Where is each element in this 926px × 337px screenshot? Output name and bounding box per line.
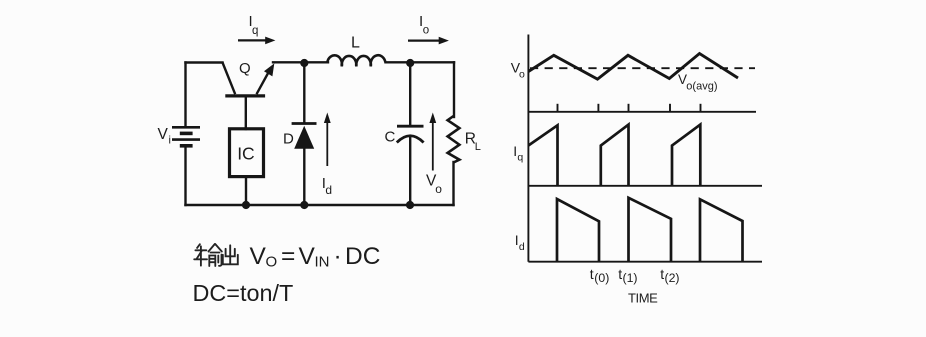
svg-text:(2): (2) xyxy=(665,271,680,285)
wire inductor to right corner xyxy=(386,61,455,63)
axis: Iq baseline xyxy=(528,185,762,187)
wire capacitor branch lower xyxy=(409,136,411,205)
svg-text:DC: DC xyxy=(345,243,380,270)
battery V_i xyxy=(172,127,200,146)
svg-text:V: V xyxy=(250,243,267,270)
formula VO = VIN · DC xyxy=(250,243,381,271)
label Vo (circuit) xyxy=(426,173,442,197)
waveform Iq pulse 3 xyxy=(672,125,700,186)
diode D xyxy=(292,124,317,149)
svg-text:q: q xyxy=(252,25,258,37)
svg-text:L: L xyxy=(351,35,360,52)
node A (collector/diode junction) xyxy=(300,59,308,67)
label Io xyxy=(419,13,429,37)
waveform Id pulse 3 xyxy=(700,199,743,261)
svg-text:V: V xyxy=(158,126,169,143)
svg-text:D: D xyxy=(283,131,294,148)
svg-text:O: O xyxy=(266,254,278,271)
hanzi 出 (drawn strokes) xyxy=(223,245,238,264)
svg-text:·: · xyxy=(334,243,342,270)
capacitor C xyxy=(397,126,424,142)
svg-text:o(avg): o(avg) xyxy=(686,80,717,92)
svg-text:TIME: TIME xyxy=(628,291,658,306)
waveform Iq pulse 2 xyxy=(601,125,629,186)
hanzi 输 (drawn strokes) xyxy=(194,244,222,266)
wire resistor bottom to rail xyxy=(452,162,454,205)
axis: tick timeline between Vo and Iq xyxy=(528,104,756,112)
wire diode branch lower xyxy=(303,149,305,205)
label t(0) xyxy=(590,266,610,285)
svg-text:o: o xyxy=(519,68,525,80)
svg-text:IN: IN xyxy=(315,254,330,271)
svg-text:t: t xyxy=(590,266,594,282)
svg-text:d: d xyxy=(519,241,525,253)
label Vi xyxy=(158,126,171,147)
arrow Iq (top current arrow) xyxy=(238,37,275,45)
label Iq xyxy=(249,13,259,37)
svg-text:i: i xyxy=(169,135,171,147)
inductor L xyxy=(327,55,385,66)
label Id (waveform axis) xyxy=(515,232,525,253)
node B (inductor/cap junction) xyxy=(406,59,414,67)
svg-text:DC=ton/T: DC=ton/T xyxy=(193,280,294,306)
wire IC to rail xyxy=(245,177,247,206)
label t(2) xyxy=(660,266,679,285)
label Vo(avg) xyxy=(678,72,717,92)
svg-text:Q: Q xyxy=(239,60,251,77)
label Iq (waveform axis) xyxy=(513,143,523,164)
svg-text:V: V xyxy=(299,243,316,270)
svg-text:o: o xyxy=(423,25,429,37)
label t(1) xyxy=(618,266,637,285)
wire left vertical lower xyxy=(184,146,186,205)
label Id (circuit) xyxy=(322,175,332,197)
transistor Q1 xyxy=(223,63,275,96)
resistor RL xyxy=(448,116,460,163)
waveform Id pulse 2 xyxy=(629,198,672,262)
wire top-left horizontal xyxy=(186,61,223,63)
node: capacitor ground junction xyxy=(406,201,414,209)
wire left vertical upper xyxy=(184,63,186,128)
wire right corner down to resistor xyxy=(453,62,455,117)
waveform Iq pulse 1 xyxy=(528,125,557,186)
axis: vertical voltage/current axis xyxy=(527,35,529,262)
tick at 700.5 xyxy=(700,104,702,112)
label RL xyxy=(465,130,481,152)
svg-text:IC: IC xyxy=(237,144,255,164)
label Vo (waveform axis) xyxy=(511,60,525,81)
waveform Id pulse 1 xyxy=(557,199,599,262)
svg-text:=: = xyxy=(281,243,295,270)
svg-text:o: o xyxy=(435,182,442,196)
wire bottom rail xyxy=(186,204,454,206)
wire base to IC xyxy=(245,97,247,129)
arrow Vo (output voltage arrow) xyxy=(429,113,436,171)
svg-text:q: q xyxy=(517,152,523,164)
svg-text:d: d xyxy=(325,183,332,197)
tick t at 557.5 xyxy=(557,104,559,112)
svg-text:(1): (1) xyxy=(623,271,638,285)
svg-text:(0): (0) xyxy=(594,271,609,285)
wire diode branch upper xyxy=(303,63,305,123)
dashed line Vo(avg) xyxy=(530,67,755,69)
svg-text:L: L xyxy=(475,141,481,153)
svg-text:C: C xyxy=(385,129,396,146)
tick at 628.5 xyxy=(628,104,630,112)
tick at 670 xyxy=(669,104,671,112)
tick at 598.4 xyxy=(597,104,599,112)
wire capacitor branch upper xyxy=(409,63,411,125)
node: IC ground junction xyxy=(242,201,250,209)
IC block U1 xyxy=(230,129,264,177)
axis: Id baseline (time axis) xyxy=(528,261,762,263)
waveform Vo ripple xyxy=(528,54,738,80)
node: diode ground junction xyxy=(300,201,308,209)
arrow Io (output current arrow) xyxy=(408,37,449,45)
arrow Id (diode current arrow) xyxy=(324,113,331,167)
wire top from emitter to inductor xyxy=(273,61,328,63)
